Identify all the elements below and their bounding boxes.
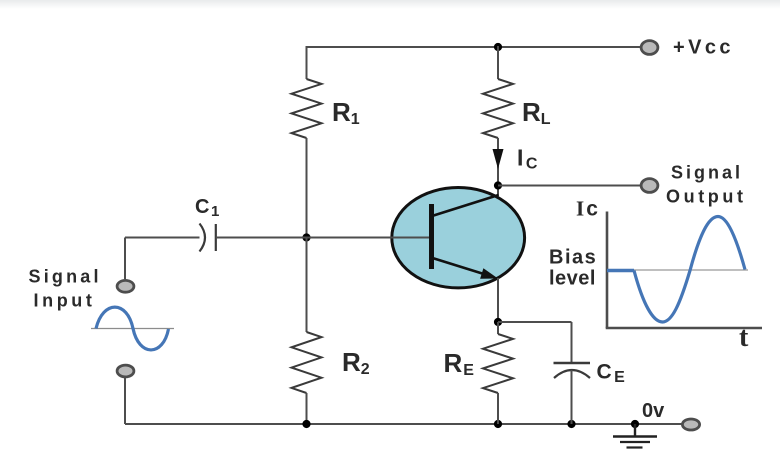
- capacitor CE top plate: [554, 362, 591, 364]
- wire RL bottom to collector: [497, 138, 499, 196]
- wire R2 bottom: [306, 393, 308, 424]
- transistor Q1 body: [392, 188, 525, 288]
- ground bar 3: [627, 446, 643, 448]
- wire R2 top: [306, 237, 308, 332]
- graph output sine wave: [634, 217, 745, 323]
- transistor Q1 base bar: [429, 204, 434, 269]
- wire CE top: [571, 322, 573, 363]
- input sine wave: [96, 307, 169, 350]
- resistor R1: [292, 79, 322, 138]
- node R2 bottom: [302, 420, 310, 428]
- resistor RL: [483, 79, 513, 138]
- transistor Q1 collector lead: [432, 195, 499, 216]
- resistor RE: [483, 334, 513, 393]
- input sine baseline: [91, 328, 174, 330]
- graph bias blue segment: [607, 269, 634, 272]
- graph bias level gray line: [607, 269, 748, 271]
- capacitor C1 curved plate: [200, 224, 206, 252]
- wire base: [125, 237, 200, 239]
- wire R1 bottom to base node: [306, 138, 308, 237]
- wire emitter junction to RE: [497, 322, 499, 334]
- svg-text:Bias: Bias: [549, 247, 597, 269]
- node base junction: [302, 233, 310, 241]
- node CE bottom: [567, 420, 575, 428]
- svg-text:level: level: [549, 268, 596, 290]
- ground stub: [634, 424, 636, 436]
- resistor R2: [292, 332, 322, 393]
- node emitter junction: [494, 318, 502, 326]
- graph horizontal axis: [606, 327, 762, 330]
- wire RL top: [497, 46, 499, 79]
- node ground junction: [631, 420, 639, 428]
- svg-text:Ic: Ic: [576, 197, 598, 221]
- transistor Q1 emitter lead: [433, 258, 488, 275]
- terminal input lower: [117, 365, 134, 377]
- wire CE bottom: [571, 370, 573, 424]
- ground bar 1: [613, 435, 657, 437]
- svg-text:Output: Output: [666, 187, 747, 207]
- svg-text:0v: 0v: [642, 400, 665, 422]
- wire input lower: [124, 378, 126, 424]
- capacitor CE curved plate: [554, 370, 590, 378]
- wire bottom rail: [125, 423, 682, 425]
- node top junction: [494, 43, 502, 51]
- capacitor C1 straight plate: [215, 224, 217, 251]
- node collector junction: [494, 181, 502, 189]
- wire emitter down: [497, 278, 499, 322]
- wire R1 top: [306, 46, 308, 79]
- svg-text:t: t: [739, 322, 749, 353]
- wire emitter to CE: [498, 321, 572, 323]
- svg-text:Signal: Signal: [671, 163, 743, 183]
- graph vertical axis: [606, 212, 609, 329]
- svg-text:Signal: Signal: [29, 267, 102, 287]
- terminal input upper: [117, 280, 134, 292]
- arrow IC current: [493, 149, 504, 169]
- wire RE bottom: [497, 393, 499, 424]
- wire top rail: [307, 46, 641, 48]
- terminal Signal Output: [641, 179, 658, 193]
- terminal 0v: [682, 419, 699, 430]
- ground bar 2: [620, 441, 650, 443]
- terminal +Vcc: [641, 41, 658, 55]
- svg-text:Input: Input: [34, 291, 96, 311]
- wire C1 to transistor base: [216, 237, 429, 239]
- node RE bottom: [494, 420, 502, 428]
- wire collector to output: [498, 185, 640, 187]
- wire input upper: [124, 238, 126, 280]
- transistor Q1 emitter arrowhead: [480, 268, 498, 279]
- svg-text:+Vcc: +Vcc: [673, 37, 734, 59]
